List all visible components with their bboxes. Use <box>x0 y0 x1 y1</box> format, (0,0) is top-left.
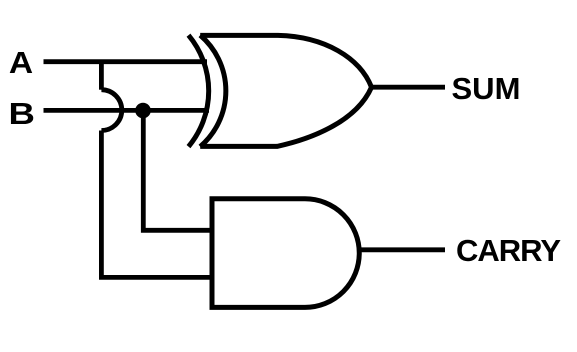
svg-text:B: B <box>9 98 35 131</box>
AND gate body <box>212 199 305 308</box>
svg-text:A: A <box>9 45 33 79</box>
AND gate output cap <box>305 199 359 308</box>
wire B input <box>44 108 210 113</box>
wire CARRY output <box>358 247 445 252</box>
XOR gate body top edge <box>200 35 371 87</box>
wire from node B down into AND upper input <box>143 110 210 230</box>
svg-text:CARRY: CARRY <box>456 233 561 268</box>
wire A input <box>44 59 208 64</box>
wire hop over B (no connection) <box>101 90 121 131</box>
wire SUM output <box>371 85 446 90</box>
XOR gate leading input arc <box>189 35 209 146</box>
node junction dot on B <box>135 103 151 119</box>
XOR gate body bottom edge <box>200 87 371 146</box>
XOR gate body back arc <box>200 35 226 146</box>
wire branch from A down to hop <box>99 62 104 90</box>
svg-text:SUM: SUM <box>452 71 521 106</box>
wire branch continues down into AND lower input <box>101 131 210 278</box>
